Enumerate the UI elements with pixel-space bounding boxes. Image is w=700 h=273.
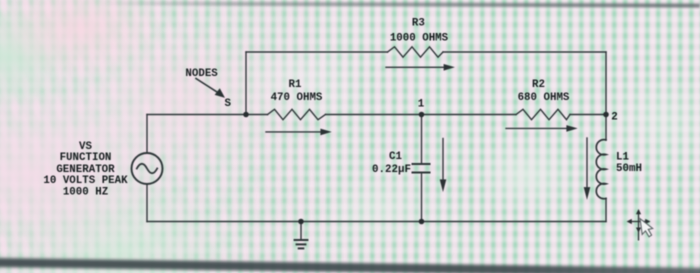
current arrow beside C1 [440, 139, 446, 191]
svg-text:NODES: NODES [185, 68, 218, 80]
wire node 1 to R2 [422, 114, 517, 116]
svg-text:S: S [224, 98, 231, 110]
svg-text:470 OHMS: 470 OHMS [271, 92, 323, 104]
resistor R2 [516, 109, 570, 119]
wire middle horizontal left (source to node S) [147, 114, 246, 116]
voltage source VS (function generator) [132, 153, 163, 184]
current arrow beside L1 [584, 138, 590, 198]
wire node S to R1 [246, 114, 268, 116]
svg-text:1000 OHMS: 1000 OHMS [390, 33, 449, 45]
junction node S [243, 112, 249, 118]
inductor L1 [596, 140, 606, 199]
svg-text:R3: R3 [412, 17, 425, 29]
svg-text:50mH: 50mH [616, 163, 642, 175]
svg-text:0.22µF: 0.22µF [372, 164, 411, 176]
wire node S up to top branch [245, 52, 247, 115]
resistor R1 [268, 109, 326, 119]
svg-text:C1: C1 [389, 151, 402, 163]
current arrow under R2 [506, 126, 576, 132]
svg-text:R2: R2 [532, 79, 545, 91]
label VS source description [43, 141, 128, 198]
current arrow under R1 [266, 129, 330, 135]
junction node 1 [419, 112, 425, 118]
svg-text:R1: R1 [289, 79, 302, 91]
wire capacitor branch bottom [421, 173, 423, 222]
wire left vertical (source branch) [146, 115, 148, 154]
wire capacitor branch top [421, 115, 423, 165]
ground [295, 222, 308, 249]
wire top horizontal left (to R3) [246, 51, 388, 53]
bottom wire [147, 221, 606, 223]
wire left vertical bottom [146, 184, 148, 222]
wire right vertical top (node 2 branch) [605, 52, 607, 140]
current arrow under R3 [386, 65, 454, 71]
NODES pointer arrow [196, 79, 224, 98]
wire R2 to node 2 [570, 114, 606, 116]
capacitor C1 [413, 164, 430, 173]
screen bezel top edge [10, 1, 700, 8]
junction node 2 [603, 112, 609, 118]
svg-text:FUNCTION: FUNCTION [60, 152, 112, 164]
screen bezel bottom edge [0, 258, 700, 273]
resistor R3 [388, 47, 444, 57]
svg-text:680 OHMS: 680 OHMS [518, 92, 570, 104]
junction ground [298, 219, 304, 225]
wire R1 to node 1 [326, 114, 422, 116]
svg-text:2: 2 [611, 111, 617, 123]
wire R3 to right top corner [443, 51, 606, 53]
svg-text:1000 HZ: 1000 HZ [63, 186, 108, 198]
mouse move cursor [627, 209, 653, 241]
wire right vertical bottom [605, 198, 607, 221]
svg-text:GENERATOR: GENERATOR [56, 164, 115, 176]
svg-text:1: 1 [418, 98, 425, 110]
junction capacitor bottom [419, 219, 425, 225]
svg-text:L1: L1 [616, 152, 629, 164]
